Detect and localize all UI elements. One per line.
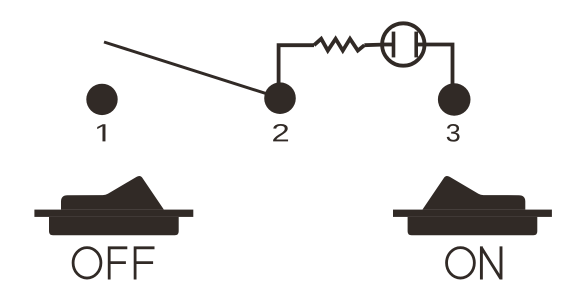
label ON: letter N (481, 246, 501, 279)
rocker switch S-ON bezel flange (393, 210, 552, 217)
rocker switch S-OFF cap (61, 176, 164, 210)
label OFF: first letter F (109, 248, 127, 280)
wire: node 2 up and right to resistor (279, 45, 314, 98)
wire: switch blade from node 2 toward node 1 (104, 42, 280, 98)
pin label 3 (447, 124, 460, 142)
lamp left electrode (382, 32, 393, 58)
lamp right electrode (416, 32, 424, 58)
rocker switch S-OFF bezel flange (34, 210, 193, 217)
rocker switch S-ON cap (423, 176, 526, 210)
resistor R1 (314, 39, 364, 51)
label OFF: letter O (73, 248, 101, 278)
pin label 2 (273, 124, 288, 141)
label ON: letter O (447, 248, 475, 278)
lamp DS1 envelope (382, 23, 424, 65)
node 1 terminal (86, 84, 117, 115)
node 2 terminal (264, 82, 296, 114)
rocker switch S-OFF base body (49, 217, 179, 235)
label OFF: second letter F (135, 248, 154, 280)
wire: lamp right to node 3 (425, 45, 453, 100)
pin label 1 (97, 124, 105, 141)
rocker switch S-ON base body (408, 217, 538, 235)
node 3 terminal (438, 83, 471, 116)
wire: resistor to lamp (364, 43, 382, 47)
